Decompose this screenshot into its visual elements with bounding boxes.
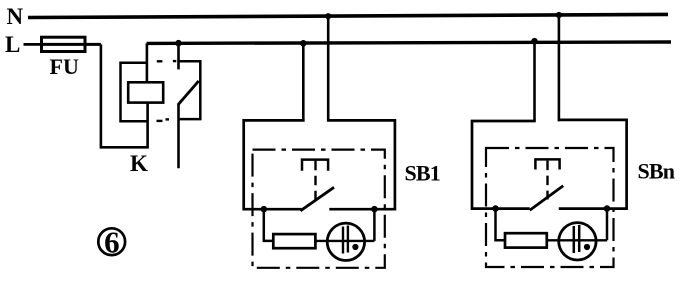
wire SB1 right drop (from N)	[327, 16, 330, 121]
enclosure top dash 2	[173, 60, 176, 62]
SB1 switch blade	[300, 187, 334, 211]
relay K enclosure left loop	[121, 63, 148, 122]
contact box of K	[179, 61, 201, 119]
fuse FU	[42, 37, 86, 51]
SBn switch blade	[530, 186, 564, 210]
bus N	[28, 14, 668, 17]
node: SB1 bottom right junction	[371, 206, 378, 213]
bus L (right section)	[147, 42, 671, 43]
wire SB1 left drop (from L)	[302, 43, 305, 121]
node: SB1 tap on L	[300, 40, 307, 47]
SBn inner dashed enclosure	[486, 148, 614, 267]
node: SB1 bottom left junction	[261, 206, 268, 213]
wire fuse down-around to coil bottom	[101, 44, 148, 147]
SB1 actuator stem (dashed)	[314, 161, 316, 200]
enclosure bottom dash 2	[166, 118, 170, 120]
node: SBn bottom left junction	[492, 205, 499, 212]
svg-text:SB1: SB1	[405, 161, 441, 186]
node: SB1 tap on N	[325, 13, 331, 19]
SB1 outer box left part	[244, 120, 305, 209]
wire K contact lower terminal	[177, 104, 180, 168]
node: SBn bottom right junction	[604, 205, 611, 212]
wire SBn lamp branch left	[496, 209, 506, 241]
wire SB1 lamp branch left	[264, 209, 274, 241]
relay coil K	[128, 82, 163, 102]
node: SBn tap on L	[531, 38, 538, 45]
SBn outer box right part	[558, 120, 627, 209]
SB1 inner dashed enclosure	[253, 150, 385, 268]
svg-text:K: K	[130, 151, 148, 176]
enclosure bottom dash 1	[157, 120, 163, 122]
node: K contact tap on L	[175, 40, 182, 47]
wire SB1 lamp branch right	[373, 209, 376, 241]
SBn outer box left part	[472, 121, 536, 209]
resistor SBn	[505, 233, 547, 247]
SBn push-button actuator bracket	[535, 159, 559, 169]
svg-text:6: 6	[104, 224, 120, 259]
contact blade K	[178, 81, 199, 105]
wire SB1 lamp lead	[315, 240, 374, 242]
svg-text:FU: FU	[50, 54, 79, 79]
wire SBn lamp branch right	[606, 209, 609, 241]
svg-text:N: N	[7, 4, 24, 29]
svg-text:L: L	[5, 32, 20, 57]
SB1 outer box right part	[327, 120, 395, 209]
wire SBn right drop (from N)	[558, 15, 561, 121]
resistor SB1	[273, 234, 315, 248]
wire SBn lamp lead	[547, 239, 607, 241]
SBn actuator stem (dashed)	[546, 161, 548, 200]
neon lamp SBn	[559, 223, 596, 260]
wire K contact upper terminal	[177, 43, 180, 69]
svg-text:SBn: SBn	[638, 159, 675, 184]
wire L to fuse	[24, 43, 42, 46]
wire through fuse	[42, 43, 101, 46]
circled figure number 6	[98, 224, 125, 259]
SB1 push-button actuator bracket	[302, 160, 328, 171]
wire SBn left drop (from L)	[533, 41, 536, 121]
neon lamp SB1	[327, 223, 364, 260]
wire L down to coil top	[146, 43, 149, 82]
node: SBn tap on N	[556, 12, 562, 18]
enclosure top dash 1	[157, 60, 163, 62]
